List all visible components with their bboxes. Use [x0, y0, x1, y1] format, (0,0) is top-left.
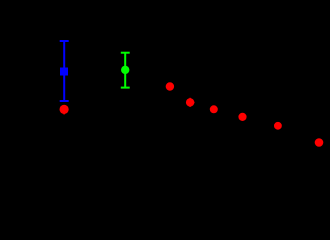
blue square marker: [60, 68, 68, 76]
green error bar (vertical line with caps): [121, 53, 130, 88]
green circle marker: [121, 66, 129, 74]
red marker 7: [315, 138, 324, 147]
red marker 4: [210, 105, 218, 113]
red marker 3 with tiny error nubs: [186, 98, 195, 107]
red marker 2: [166, 82, 174, 90]
blue error bar (vertical line with caps): [60, 41, 69, 101]
red marker 6: [274, 122, 282, 130]
red marker 1 (below blue bar) with small lower error nub: [60, 105, 69, 115]
red marker 5: [238, 113, 246, 121]
